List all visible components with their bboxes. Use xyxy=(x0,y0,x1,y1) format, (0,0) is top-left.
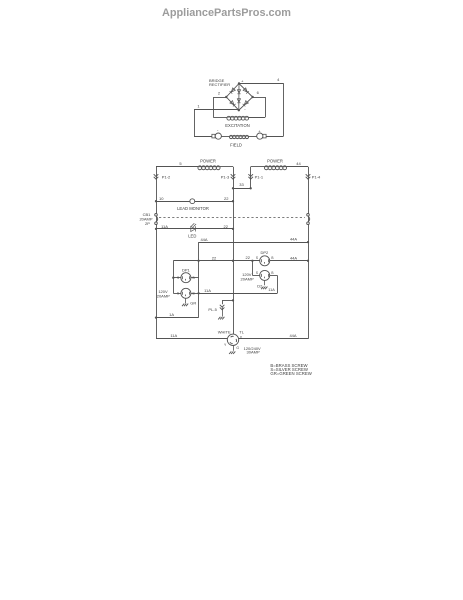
svg-text:44: 44 xyxy=(296,161,301,166)
svg-text:30AMP: 30AMP xyxy=(247,350,260,355)
svg-text:S: S xyxy=(256,271,258,275)
svg-text:S: S xyxy=(177,292,179,296)
svg-text:6: 6 xyxy=(257,90,260,95)
svg-text:LED: LED xyxy=(188,234,196,239)
svg-text:P1-1: P1-1 xyxy=(255,174,264,179)
svg-text:4: 4 xyxy=(277,77,280,82)
svg-text:B: B xyxy=(271,271,273,275)
svg-text:POWER: POWER xyxy=(200,158,216,163)
svg-text:-: - xyxy=(244,107,246,112)
svg-text:5: 5 xyxy=(179,161,182,166)
svg-text:22: 22 xyxy=(245,255,250,260)
svg-text:20AMP: 20AMP xyxy=(241,277,254,282)
svg-text:PL-5: PL-5 xyxy=(208,307,217,312)
svg-text:EXCITATION: EXCITATION xyxy=(225,123,250,128)
svg-text:44A: 44A xyxy=(290,236,297,241)
svg-text:B: B xyxy=(193,276,195,280)
svg-text:DP2: DP2 xyxy=(261,250,270,255)
svg-text:+: + xyxy=(241,78,244,83)
svg-text:10: 10 xyxy=(159,196,164,201)
svg-text:P1-2: P1-2 xyxy=(162,174,171,179)
svg-text:1A: 1A xyxy=(169,312,174,317)
svg-text:-: - xyxy=(217,128,219,133)
svg-text:GR: GR xyxy=(190,300,196,305)
svg-text:FIELD: FIELD xyxy=(230,142,242,147)
svg-text:1: 1 xyxy=(197,104,200,109)
svg-text:TL: TL xyxy=(239,329,244,334)
svg-text:RECTIFIER: RECTIFIER xyxy=(209,82,230,87)
svg-text:GR=GREEN SCREW: GR=GREEN SCREW xyxy=(270,371,312,376)
svg-text:WHITE: WHITE xyxy=(218,329,231,334)
svg-text:+: + xyxy=(258,128,261,133)
svg-text:POWER: POWER xyxy=(267,158,283,163)
svg-text:B: B xyxy=(193,292,195,296)
svg-text:S: S xyxy=(177,276,179,280)
svg-text:22: 22 xyxy=(223,224,228,229)
svg-text:P1-4: P1-4 xyxy=(312,174,321,179)
svg-text:X: X xyxy=(240,336,243,340)
svg-text:Y: Y xyxy=(224,343,227,347)
svg-text:44A: 44A xyxy=(200,237,207,242)
svg-text:20AMP: 20AMP xyxy=(157,293,170,298)
svg-text:LEAD MONITOR: LEAD MONITOR xyxy=(177,206,209,211)
svg-text:11A: 11A xyxy=(170,333,177,338)
svg-text:11A: 11A xyxy=(161,224,168,229)
svg-text:DP1: DP1 xyxy=(182,268,191,273)
svg-text:22: 22 xyxy=(212,256,217,261)
svg-text:2P: 2P xyxy=(145,221,150,226)
svg-text:G: G xyxy=(236,346,239,350)
svg-text:44A: 44A xyxy=(289,333,296,338)
svg-text:11A: 11A xyxy=(268,288,275,292)
svg-text:B: B xyxy=(271,256,273,260)
svg-text:11A: 11A xyxy=(204,288,211,293)
svg-text:2: 2 xyxy=(218,91,221,96)
svg-text:22: 22 xyxy=(224,196,229,201)
svg-text:P1-3: P1-3 xyxy=(221,174,230,179)
svg-text:S: S xyxy=(256,256,258,260)
svg-text:33: 33 xyxy=(239,182,244,187)
svg-text:44A: 44A xyxy=(290,255,297,260)
